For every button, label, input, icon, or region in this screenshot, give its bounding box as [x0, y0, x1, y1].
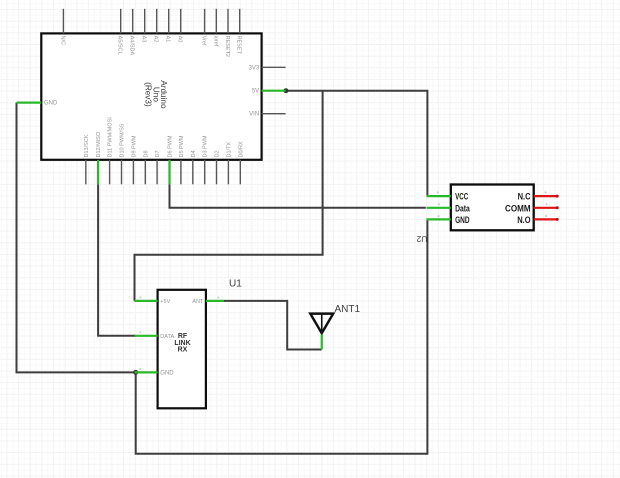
RF LINK RX module U1 [135, 279, 243, 409]
svg-text:Data: Data [455, 203, 470, 213]
pin RESET [236, 9, 242, 55]
pin D13/SCK [84, 134, 90, 184]
pin N/C [59, 9, 65, 45]
antenna pin [321, 335, 323, 350]
pin DATA [135, 334, 175, 340]
wire DATA-relay: Arduino D6 PWM down then right to relay Data [170, 184, 426, 208]
svg-text:D5 PWM: D5 PWM [179, 135, 185, 157]
svg-text:A1: A1 [165, 36, 171, 43]
svg-text:ioref: ioref [212, 36, 218, 47]
U2 body [451, 185, 534, 231]
pin A5/SCL [117, 9, 123, 55]
Arduino body [41, 33, 261, 159]
svg-text:N.O: N.O [517, 215, 530, 225]
pin 3V3 [249, 65, 286, 71]
wire GND: Arduino GND left down to RF GND [17, 103, 136, 373]
pin A1 [165, 9, 171, 43]
wire end dot N.O [556, 218, 559, 221]
pin ioref [212, 9, 218, 47]
pin D2 [215, 150, 221, 184]
junction dot at 5V net [283, 88, 288, 93]
svg-text:D8: D8 [143, 150, 149, 157]
U1 body [158, 290, 206, 409]
svg-text:D3 PWM: D3 PWM [203, 135, 209, 157]
pin +5V [135, 299, 171, 305]
svg-text:U2: U2 [416, 234, 427, 244]
svg-text:VCC: VCC [455, 192, 469, 202]
svg-text:COMM: COMM [505, 203, 531, 213]
pin VCC [427, 192, 469, 202]
pin D11 PWM/MOSI [108, 117, 114, 185]
pin Data [427, 203, 471, 213]
svg-text:+5V: +5V [160, 299, 170, 305]
pin RESET2 [224, 9, 230, 57]
pin Vref [201, 9, 207, 46]
svg-text:A4/SDA: A4/SDA [129, 36, 135, 56]
svg-text:D12/MISO: D12/MISO [96, 131, 102, 157]
pin D5 PWM [179, 135, 185, 184]
pin D9 PWM [131, 135, 137, 184]
svg-text:3V3: 3V3 [249, 65, 260, 71]
antenna feed line [321, 314, 323, 334]
pin D7 [155, 150, 161, 184]
svg-text:ANT: ANT [192, 299, 204, 305]
svg-text:D9 PWM: D9 PWM [131, 135, 137, 157]
svg-text:D13/SCK: D13/SCK [84, 134, 90, 157]
pin COMM [505, 203, 558, 213]
svg-text:GND: GND [44, 101, 58, 107]
pin GND [427, 215, 470, 225]
svg-text:N.C: N.C [518, 192, 531, 202]
pin D12/MISO [96, 131, 102, 184]
pin N.C [518, 192, 559, 202]
svg-text:ANT1: ANT1 [335, 304, 361, 315]
wire end dot COMM [556, 206, 559, 209]
antenna ANT1 [310, 304, 360, 350]
svg-text:U1: U1 [229, 279, 242, 290]
svg-text:A2: A2 [153, 36, 159, 43]
pin 5V [252, 89, 286, 95]
svg-text:D0/RX: D0/RX [238, 141, 244, 158]
wire 5V-A: Arduino 5V right then down to relay VCC [286, 91, 428, 196]
svg-text:DATA: DATA [160, 334, 174, 340]
svg-text:5V: 5V [252, 89, 259, 95]
wire 5V-B: branch down to RF +5V [135, 91, 323, 301]
svg-text:RESET: RESET [236, 36, 242, 55]
pin A3 [141, 9, 147, 43]
pin D3 PWM [203, 135, 209, 184]
pin D0/RX [238, 141, 244, 184]
pin A2 [153, 9, 159, 43]
wire DATA-RF: Arduino D12/MISO down to RF DATA [98, 184, 136, 335]
pin D4 [191, 150, 197, 184]
terminal marks U1 [140, 297, 220, 370]
svg-text:D10 PWM/SS: D10 PWM/SS [120, 123, 126, 157]
pin A0 [177, 9, 183, 43]
svg-text:N/C: N/C [59, 36, 65, 46]
svg-text:A0: A0 [177, 36, 183, 43]
pin N.O [517, 215, 558, 225]
svg-text:D1/TX: D1/TX [226, 142, 232, 158]
relay module U2 [416, 185, 558, 245]
svg-text:D6 PWM: D6 PWM [168, 135, 174, 157]
svg-text:VIN: VIN [249, 112, 259, 118]
svg-text:RESET2: RESET2 [224, 36, 230, 57]
Arduino Uno (Rev3) module [17, 9, 286, 185]
pin ANT [192, 299, 224, 305]
svg-text:D11 PWM/MOSI: D11 PWM/MOSI [108, 117, 114, 158]
pin D10 PWM/SS [120, 123, 126, 184]
pin VIN [249, 112, 285, 118]
svg-text:D2: D2 [215, 150, 221, 157]
pin A4/SDA [129, 9, 135, 56]
wire GND: RF GND junction down, bottom run, up to relay GND [136, 219, 428, 453]
svg-text:D4: D4 [191, 150, 197, 157]
terminal marks [437, 192, 548, 217]
svg-text:A5/SCL: A5/SCL [117, 36, 123, 55]
junction dot at RF GND net [133, 370, 138, 375]
pin D6 PWM [168, 135, 174, 184]
pin GND (left) [17, 101, 59, 107]
svg-text:D7: D7 [155, 150, 161, 157]
svg-text:Vref: Vref [201, 36, 207, 46]
pin D1/TX [226, 142, 232, 185]
wire end dot N.C [556, 195, 559, 198]
svg-text:GND: GND [455, 215, 470, 225]
pin D8 [143, 150, 149, 184]
svg-text:A3: A3 [141, 36, 147, 43]
wire ANT: RF ANT right, down, to antenna feed [224, 301, 322, 350]
pin GND [135, 370, 175, 376]
antenna triangle [310, 314, 333, 334]
svg-text:GND: GND [160, 370, 174, 376]
